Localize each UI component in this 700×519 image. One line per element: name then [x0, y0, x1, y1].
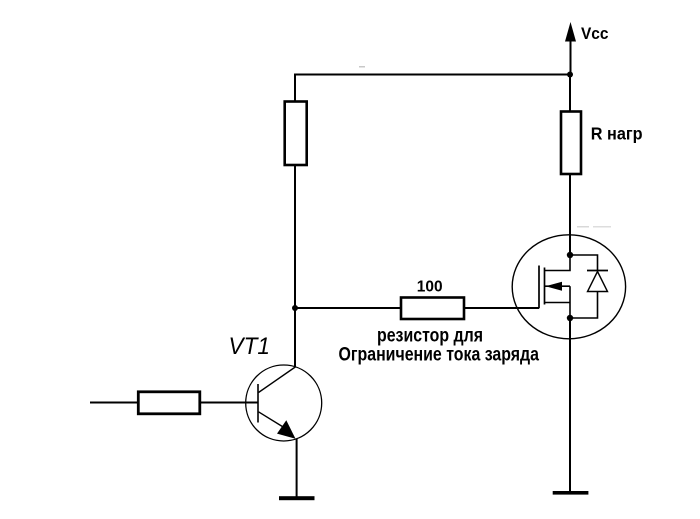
wire: emitter to ground — [296, 439, 298, 498]
wire: gate line right segment — [464, 307, 539, 309]
resistor R нагр — [561, 112, 581, 175]
wire drain dot to channel — [544, 255, 570, 271]
transistor MOSFET (N-channel with body diode) — [512, 235, 625, 339]
ground (left) — [279, 496, 315, 500]
collector diagonal — [259, 367, 297, 393]
wire: base lead right — [200, 402, 258, 404]
wire: left rail top — [294, 74, 296, 103]
wire: gate line left segment — [295, 307, 401, 309]
wire: left rail middle — [294, 165, 296, 308]
node: divider junction dot — [292, 305, 298, 311]
junction: Vcc node dot — [567, 72, 573, 78]
wire: top horizontal bus — [294, 74, 570, 76]
wire to body diode bottom — [570, 292, 598, 319]
resistor 100 — [401, 298, 464, 320]
body diode triangle — [588, 272, 608, 292]
wire: base lead left — [90, 402, 138, 404]
source connection with arrow — [545, 285, 571, 287]
svg-text:Ограничение тока заряда: Ограничение тока заряда — [339, 344, 540, 365]
power symbol Vcc (arrow) — [565, 22, 576, 75]
envelope circle — [246, 365, 322, 441]
resistor R base (unlabeled) — [138, 392, 200, 414]
wire to body diode top — [570, 255, 598, 270]
svg-text:VT1: VT1 — [229, 333, 271, 360]
base bar — [257, 384, 259, 423]
gate bar — [538, 266, 540, 309]
ground (right) — [553, 491, 589, 495]
svg-text:R нагр: R нагр — [591, 124, 643, 144]
wire: right rail Vcc to R load — [569, 75, 571, 113]
resistor R1 (upper, unlabeled) — [285, 102, 307, 166]
svg-text:100: 100 — [417, 278, 443, 295]
bottom connection — [545, 302, 571, 304]
stray mark — [359, 66, 365, 68]
emitter diagonal — [259, 412, 289, 430]
wire: source to ground — [569, 318, 571, 493]
transistor VT1 (NPN) — [246, 365, 322, 441]
source junction dot — [567, 315, 573, 321]
body diode cathode bar — [587, 270, 608, 272]
wire source vertical — [569, 286, 571, 318]
envelope circle — [512, 235, 625, 339]
channel bar — [544, 268, 546, 305]
emitter arrowhead — [277, 420, 296, 438]
drain junction dot — [567, 252, 573, 258]
wire: R load to MOSFET drain — [569, 174, 571, 255]
wire: junction to VT1 collector — [294, 308, 296, 367]
svg-text:Vcc: Vcc — [581, 25, 609, 43]
